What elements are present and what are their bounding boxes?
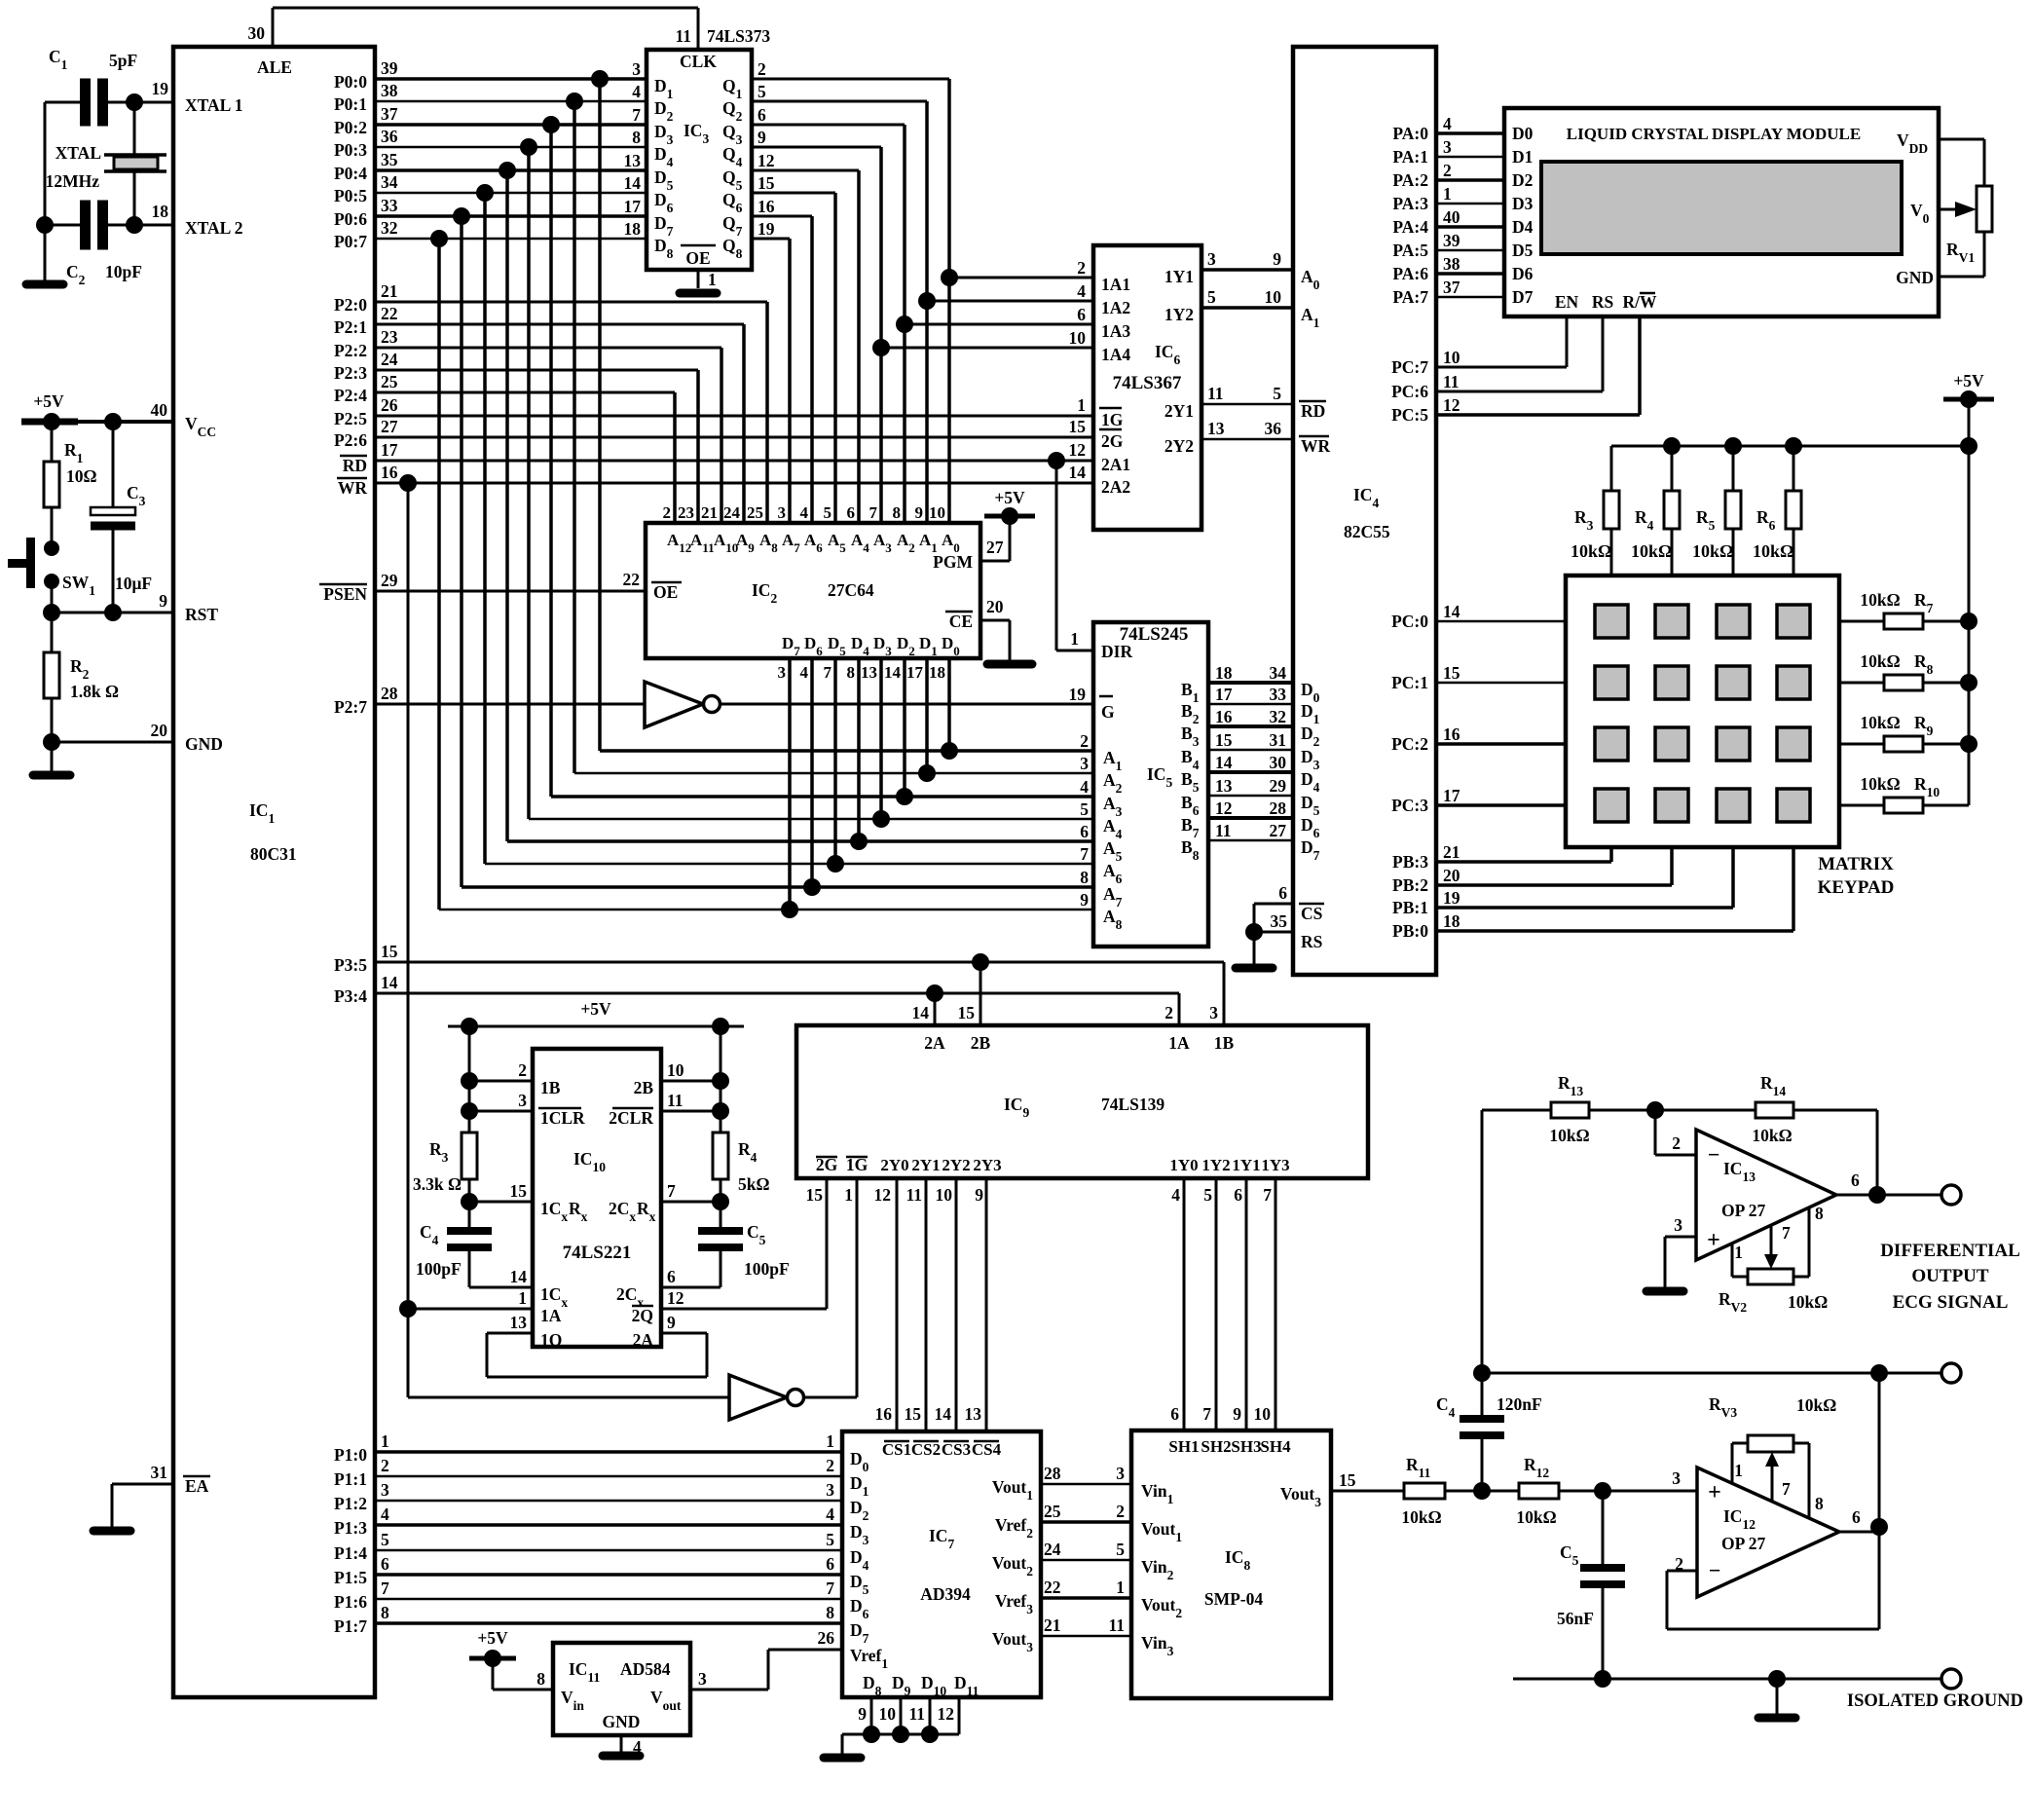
potentiometer RV3 10k offset <box>1709 1394 1836 1518</box>
monostable IC10 74LS221 <box>533 1049 661 1347</box>
svg-text:4: 4 <box>381 1504 389 1524</box>
svg-text:26: 26 <box>381 395 398 415</box>
svg-text:30: 30 <box>248 23 266 43</box>
svg-text:10kΩ: 10kΩ <box>1549 1126 1589 1145</box>
IC3 pin labels <box>624 59 775 261</box>
voltage reference IC11 AD584 <box>536 1643 707 1757</box>
IC4 port B pin labels <box>1392 842 1460 941</box>
IC1 port P2 / control pin labels <box>319 281 398 1006</box>
wire P1:5 to IC7 D5 <box>375 1554 842 1575</box>
wire P2:0 address A8 to IC2 <box>375 302 767 523</box>
svg-text:24: 24 <box>1044 1540 1061 1559</box>
svg-text:35: 35 <box>381 150 398 169</box>
svg-text:5: 5 <box>824 503 832 522</box>
svg-text:4: 4 <box>1080 777 1089 797</box>
svg-text:10kΩ: 10kΩ <box>1796 1395 1836 1415</box>
+5V supply to IC1 VCC <box>21 391 173 430</box>
buffer IC6 74LS367 <box>1093 245 1201 530</box>
svg-text:15: 15 <box>1339 1470 1356 1490</box>
junction dots IC2 data pins on bus <box>781 742 958 918</box>
IC4 PC0-PC3 pin labels <box>1391 602 1460 815</box>
wire IC9 2Y0 to IC7 CS1 <box>875 1178 898 1431</box>
svg-text:PC:7: PC:7 <box>1391 357 1428 377</box>
svg-text:7: 7 <box>1080 844 1089 864</box>
svg-text:1: 1 <box>1070 629 1079 649</box>
peripheral interface IC4 82C55 <box>1293 47 1436 975</box>
svg-text:2A: 2A <box>924 1033 945 1053</box>
wire IC4 PC:0 to keypad row 1 <box>1436 620 1566 623</box>
svg-text:13: 13 <box>861 663 877 682</box>
svg-text:3: 3 <box>1674 1215 1682 1235</box>
svg-text:4: 4 <box>800 663 809 682</box>
svg-text:SH3: SH3 <box>1231 1437 1261 1456</box>
svg-text:OP 27: OP 27 <box>1721 1201 1765 1220</box>
svg-text:14: 14 <box>1443 602 1460 621</box>
svg-text:P0:4: P0:4 <box>334 164 367 183</box>
svg-text:P2:1: P2:1 <box>334 317 367 337</box>
capacitor C5 56nF filter <box>1557 1491 1625 1679</box>
svg-text:XTAL 2: XTAL 2 <box>185 218 242 238</box>
svg-text:10: 10 <box>879 1704 897 1724</box>
resistor R3 3.3k <box>413 1133 477 1194</box>
svg-text:PC:0: PC:0 <box>1391 612 1428 631</box>
svg-text:7: 7 <box>869 503 878 522</box>
wire IC5 B4 to IC4 D3 <box>1208 749 1293 752</box>
svg-text:KEYPAD: KEYPAD <box>1818 877 1895 898</box>
svg-text:3: 3 <box>381 1480 389 1500</box>
wire IC9 1Y to IC8 SH1 <box>1170 1178 1184 1430</box>
transceiver IC5 74LS245 <box>1093 622 1208 947</box>
IC2 data pin labels <box>778 634 960 682</box>
svg-text:12: 12 <box>874 1185 892 1205</box>
svg-text:100pF: 100pF <box>416 1259 462 1279</box>
wire P1:3 to IC7 D3 <box>375 1504 842 1525</box>
ground at IC1 GND pin 20 <box>33 733 173 775</box>
svg-text:−: − <box>1708 1142 1720 1167</box>
svg-text:GND: GND <box>1896 268 1934 287</box>
wire keypad column 2 to IC4 PB:2 <box>1436 847 1672 885</box>
wire IC4 PA:5 to LCD D5 <box>1436 249 1504 252</box>
wire P2:3 address A11 to IC2 <box>375 370 698 523</box>
isolated ground rail <box>1513 1669 2023 1718</box>
wire IC7 to IC8 ladder 3 <box>1041 1540 1131 1560</box>
svg-text:10kΩ: 10kΩ <box>1860 590 1900 610</box>
svg-text:27C64: 27C64 <box>828 580 874 600</box>
svg-text:2: 2 <box>1672 1133 1681 1153</box>
resistor R11 10k <box>1331 1455 1482 1527</box>
svg-text:6: 6 <box>1170 1404 1179 1424</box>
svg-text:1G: 1G <box>1101 410 1124 429</box>
svg-text:RST: RST <box>185 605 218 624</box>
svg-text:SMP-04: SMP-04 <box>1204 1589 1264 1609</box>
svg-text:P0:3: P0:3 <box>334 140 367 160</box>
svg-text:5kΩ: 5kΩ <box>738 1174 770 1194</box>
svg-text:SH2: SH2 <box>1201 1437 1231 1456</box>
svg-text:6: 6 <box>1852 1507 1861 1527</box>
IC7 chip select labels <box>882 1440 1002 1459</box>
svg-text:10μF: 10μF <box>115 574 152 593</box>
svg-text:15: 15 <box>758 173 775 193</box>
svg-text:PA:4: PA:4 <box>1392 217 1428 237</box>
svg-text:32: 32 <box>381 218 398 238</box>
svg-text:7: 7 <box>1202 1404 1211 1424</box>
svg-text:15: 15 <box>510 1181 528 1201</box>
svg-text:2: 2 <box>381 1456 389 1475</box>
svg-text:MATRIX: MATRIX <box>1818 854 1894 874</box>
svg-text:11: 11 <box>1215 821 1232 840</box>
svg-text:9: 9 <box>667 1313 676 1332</box>
svg-text:9: 9 <box>1233 1404 1241 1424</box>
wire P2:2 address A10 to IC2 <box>375 348 721 523</box>
svg-text:D5: D5 <box>1512 241 1534 260</box>
svg-text:2Y0: 2Y0 <box>880 1156 908 1174</box>
svg-text:P0:5: P0:5 <box>334 186 367 205</box>
wire WR to IC6 2A2 and one-shot trigger <box>375 474 1093 1397</box>
svg-text:17: 17 <box>1215 685 1233 704</box>
resistor R14 10k feedback <box>1655 1073 1877 1195</box>
svg-text:9: 9 <box>858 1704 867 1724</box>
wire IC4 PA:6 to LCD D6 <box>1436 272 1504 276</box>
svg-text:16: 16 <box>381 463 398 482</box>
svg-text:9: 9 <box>915 503 924 522</box>
svg-text:1: 1 <box>381 1431 389 1451</box>
wire PC:6 to LCD RS <box>1436 316 1603 391</box>
svg-text:6: 6 <box>1278 883 1287 903</box>
sample-hold IC8 SMP-04 <box>1131 1430 1331 1698</box>
svg-text:1A2: 1A2 <box>1101 298 1130 317</box>
svg-text:21: 21 <box>701 503 718 522</box>
svg-text:17: 17 <box>1443 786 1460 805</box>
svg-text:D2: D2 <box>1512 170 1533 190</box>
wire P0:4 data bus to IC3 D5 and IC5 A5 <box>375 162 1093 841</box>
wire IC3 Q3 address A2 to IC2 <box>752 125 905 523</box>
svg-text:15: 15 <box>1069 417 1087 436</box>
inverter from WR to IC9 1G <box>408 1178 857 1420</box>
svg-text:P2:3: P2:3 <box>334 363 367 383</box>
svg-text:9: 9 <box>1080 890 1089 910</box>
svg-text:20: 20 <box>986 597 1004 616</box>
svg-text:6: 6 <box>758 105 766 125</box>
svg-text:14: 14 <box>912 1003 930 1022</box>
svg-text:P2:6: P2:6 <box>334 430 367 450</box>
svg-text:10kΩ: 10kΩ <box>1860 774 1900 794</box>
wire IC4 PA:4 to LCD D4 <box>1436 225 1504 229</box>
svg-text:13: 13 <box>1207 419 1225 438</box>
wire keypad column 1 to IC4 PB:3 <box>1436 847 1611 862</box>
svg-text:2: 2 <box>826 1456 834 1475</box>
wire IC2 D1 to data bus <box>925 658 929 773</box>
IC7 pin labels <box>818 1449 1034 1671</box>
svg-text:CS4: CS4 <box>972 1440 1002 1459</box>
svg-text:1A1: 1A1 <box>1101 275 1130 294</box>
svg-text:1: 1 <box>708 270 717 289</box>
svg-text:RD: RD <box>1301 401 1325 421</box>
wire IC3 Q6 address A5 to IC2 <box>752 193 835 523</box>
svg-text:WR: WR <box>338 478 368 498</box>
svg-text:2A2: 2A2 <box>1101 477 1130 497</box>
IC4 left pin labels <box>1299 267 1331 456</box>
svg-text:10Ω: 10Ω <box>66 466 97 486</box>
svg-text:4: 4 <box>1171 1185 1180 1205</box>
svg-text:36: 36 <box>381 127 398 146</box>
svg-text:6: 6 <box>667 1267 676 1286</box>
wire IC9 1Y to IC8 SH2 <box>1202 1178 1216 1430</box>
wire P1:6 to IC7 D6 <box>375 1579 842 1599</box>
wire IC7 to IC8 ladder 4 <box>1041 1578 1131 1598</box>
svg-text:P2:7: P2:7 <box>334 697 367 717</box>
svg-text:7: 7 <box>381 1579 389 1598</box>
wire IC9 2Y3 to IC7 CS4 <box>965 1178 987 1431</box>
wire P1:0 to IC7 D0 <box>375 1431 842 1452</box>
IC2 PGM pin 27 to +5V <box>980 488 1035 561</box>
svg-text:2: 2 <box>1077 258 1086 278</box>
wire R4 to C5 and 2CxRx <box>661 1179 729 1231</box>
svg-text:5: 5 <box>1203 1185 1212 1205</box>
svg-text:CS: CS <box>1301 904 1322 923</box>
svg-text:23: 23 <box>678 503 694 522</box>
svg-text:P1:6: P1:6 <box>334 1592 367 1612</box>
svg-text:6: 6 <box>826 1554 834 1574</box>
svg-text:1: 1 <box>1077 395 1086 415</box>
svg-text:P2:2: P2:2 <box>334 341 367 360</box>
svg-text:29: 29 <box>1270 776 1287 796</box>
svg-text:2Q: 2Q <box>632 1306 653 1325</box>
wire IC2 D5 to data bus <box>833 658 837 864</box>
IC2 OE pin number <box>623 570 641 589</box>
svg-text:3: 3 <box>778 663 787 682</box>
svg-text:2A: 2A <box>633 1330 654 1350</box>
svg-text:2: 2 <box>518 1060 527 1080</box>
capacitor C5 100pF timing <box>698 1222 790 1279</box>
wire C4 to IC10 1Cx <box>469 1251 533 1287</box>
resistor R6 10k pull-up <box>1753 491 1801 576</box>
svg-text:10kΩ: 10kΩ <box>1753 541 1793 561</box>
svg-text:2: 2 <box>1443 161 1452 180</box>
svg-text:1.8k Ω: 1.8k Ω <box>70 682 119 701</box>
svg-text:14: 14 <box>510 1267 528 1286</box>
wire IC5 B7 to IC4 D6 <box>1208 816 1293 820</box>
svg-text:P1:0: P1:0 <box>334 1445 367 1465</box>
wire IC4 PC:2 to keypad row 3 <box>1436 742 1566 746</box>
svg-text:ECG SIGNAL: ECG SIGNAL <box>1893 1292 2009 1313</box>
svg-text:16: 16 <box>875 1404 893 1424</box>
svg-text:15: 15 <box>958 1003 976 1022</box>
svg-text:GND: GND <box>603 1712 641 1731</box>
wire LCD GND to RV1 bottom <box>1939 232 1984 277</box>
op-amp IC13 OP27 <box>1696 1130 1836 1260</box>
svg-text:9: 9 <box>975 1185 983 1205</box>
svg-text:22: 22 <box>381 304 398 323</box>
IC8 sample-hold input labels <box>1168 1437 1291 1456</box>
svg-text:20: 20 <box>1443 866 1460 885</box>
wire IC5 B8 to IC4 D7 <box>1208 839 1293 842</box>
svg-text:74LS139: 74LS139 <box>1101 1095 1164 1114</box>
wire P1:4 to IC7 D4 <box>375 1530 842 1550</box>
svg-text:+: + <box>1707 1228 1720 1253</box>
svg-text:CLK: CLK <box>680 52 717 71</box>
IC1 left pin labels <box>151 79 243 1496</box>
svg-text:18: 18 <box>929 663 945 682</box>
svg-text:CS1: CS1 <box>882 1440 911 1459</box>
svg-text:10kΩ: 10kΩ <box>1860 651 1900 671</box>
wire IC2 D4 to data bus <box>857 658 861 841</box>
svg-text:1: 1 <box>1116 1578 1125 1597</box>
wire IC4 PA:2 to LCD D2 <box>1436 178 1504 182</box>
IC4 CS and RS pins to ground <box>1236 883 1324 968</box>
svg-text:PC:2: PC:2 <box>1391 734 1428 754</box>
IC2 address pin labels <box>663 503 960 555</box>
svg-text:18: 18 <box>1215 663 1233 683</box>
svg-text:19: 19 <box>758 219 775 239</box>
svg-text:30: 30 <box>1270 753 1287 772</box>
svg-text:2: 2 <box>758 59 766 79</box>
svg-text:7: 7 <box>824 663 832 682</box>
svg-text:22: 22 <box>623 570 641 589</box>
svg-text:−: − <box>1709 1558 1721 1582</box>
IC1 port P0 pin labels <box>334 58 398 251</box>
svg-text:35: 35 <box>1271 911 1288 931</box>
wire IC3 Q2 address A1 to IC2 <box>752 101 927 523</box>
svg-text:10pF: 10pF <box>105 262 142 281</box>
wire +5V rail to column pull-ups <box>1611 437 1969 491</box>
svg-text:12: 12 <box>1215 799 1233 818</box>
resistor R1 10ohm <box>44 422 97 539</box>
svg-text:1Y1: 1Y1 <box>1164 267 1194 286</box>
wire IC3 Q8 address A7 to IC2 <box>752 239 790 523</box>
svg-text:18: 18 <box>624 219 642 239</box>
wire trigger to IC10 1A <box>408 1308 533 1311</box>
+5V to IC11 Vin <box>469 1628 553 1690</box>
svg-text:P0:6: P0:6 <box>334 209 367 229</box>
svg-text:PB:1: PB:1 <box>1392 898 1428 917</box>
svg-text:74LS221: 74LS221 <box>563 1243 632 1263</box>
wire P0:0 data bus to IC3 D1 and IC5 A1 <box>375 70 1093 751</box>
EPROM IC2 27C64 <box>646 523 980 658</box>
svg-text:23: 23 <box>381 327 398 347</box>
svg-text:AD584: AD584 <box>620 1659 671 1679</box>
svg-text:1: 1 <box>844 1185 853 1205</box>
svg-text:PA:0: PA:0 <box>1392 124 1428 143</box>
wire R3 to C4 and 1CxRx <box>461 1179 533 1231</box>
wire IC9 2Y1 to IC7 CS2 <box>905 1178 927 1431</box>
svg-text:2B: 2B <box>634 1078 654 1097</box>
svg-text:24: 24 <box>723 503 741 522</box>
capacitor C4 120nF filter <box>1436 1373 1542 1491</box>
svg-text:13: 13 <box>1215 776 1233 796</box>
svg-text:P1:5: P1:5 <box>334 1568 367 1587</box>
svg-text:15: 15 <box>905 1404 922 1424</box>
wire IC3 Q5 address A4 to IC2 <box>752 170 859 523</box>
svg-text:21: 21 <box>1443 842 1460 862</box>
capacitor C1 5pF <box>45 47 173 127</box>
wire keypad column 3 to IC4 PB:1 <box>1436 847 1733 908</box>
svg-text:2Y1: 2Y1 <box>1164 401 1194 421</box>
wire P2:6 to IC6 2G <box>375 436 1093 439</box>
latch IC3 74LS373 <box>647 26 770 270</box>
svg-text:14: 14 <box>1215 753 1233 772</box>
wire P2:5 to IC6 1G <box>375 415 1093 418</box>
svg-text:PC:6: PC:6 <box>1391 382 1428 401</box>
wire P1:1 to IC7 D1 <box>375 1456 842 1476</box>
svg-text:6: 6 <box>1077 305 1086 324</box>
svg-text:10kΩ: 10kΩ <box>1788 1292 1828 1312</box>
wire IC6 1Y1 to IC4 A0 <box>1201 249 1293 270</box>
resistor R7 10k row pull-up <box>1839 590 1969 629</box>
svg-text:15: 15 <box>1215 730 1233 750</box>
svg-text:1Y2: 1Y2 <box>1164 305 1194 324</box>
decoder IC9 74LS139 <box>796 1025 1368 1178</box>
wire IC2 D7 to data bus <box>788 658 792 910</box>
svg-text:33: 33 <box>381 196 398 215</box>
svg-text:14: 14 <box>884 663 902 682</box>
wire IC4 PA:3 to LCD D3 <box>1436 203 1504 205</box>
+5V rail for keypad resistors <box>1943 371 1994 805</box>
svg-text:38: 38 <box>1443 254 1460 274</box>
svg-text:3: 3 <box>826 1480 834 1500</box>
svg-text:24: 24 <box>381 350 398 369</box>
svg-text:1: 1 <box>1443 184 1452 204</box>
svg-text:7: 7 <box>1782 1223 1791 1243</box>
svg-text:2Y2: 2Y2 <box>1164 436 1194 456</box>
svg-text:40: 40 <box>151 400 168 420</box>
wire IC11 Vout to IC7 Vref1 <box>690 1650 842 1690</box>
IC4 PC7-PC5 pin labels <box>1391 348 1460 425</box>
svg-text:D4: D4 <box>1512 217 1534 237</box>
svg-text:10: 10 <box>1254 1404 1272 1424</box>
svg-text:8: 8 <box>632 128 641 147</box>
svg-text:2Y1: 2Y1 <box>911 1156 940 1174</box>
svg-text:3: 3 <box>1116 1464 1125 1483</box>
svg-text:37: 37 <box>381 104 398 124</box>
svg-text:8: 8 <box>1815 1204 1824 1223</box>
svg-text:5: 5 <box>1207 287 1216 307</box>
svg-text:2CLR: 2CLR <box>609 1108 653 1128</box>
svg-text:10: 10 <box>1069 328 1087 348</box>
svg-text:14: 14 <box>935 1404 952 1424</box>
svg-text:11: 11 <box>906 1185 922 1205</box>
svg-text:11: 11 <box>1108 1616 1125 1635</box>
svg-text:14: 14 <box>624 173 642 193</box>
svg-text:2G: 2G <box>1101 431 1124 451</box>
svg-text:+5V: +5V <box>1953 371 1984 390</box>
wire P1:7 to IC7 D7 <box>375 1603 842 1623</box>
svg-text:+5V: +5V <box>477 1628 508 1648</box>
svg-text:16: 16 <box>758 197 775 216</box>
LCD pin labels <box>1512 124 1934 312</box>
svg-text:ALE: ALE <box>257 57 292 77</box>
svg-text:2: 2 <box>1080 731 1089 751</box>
svg-text:PGM: PGM <box>933 552 973 572</box>
svg-text:13: 13 <box>510 1313 528 1332</box>
svg-text:5pF: 5pF <box>109 51 137 70</box>
svg-text:CS3: CS3 <box>942 1440 971 1459</box>
svg-text:10kΩ: 10kΩ <box>1860 713 1900 732</box>
svg-text:+5V: +5V <box>994 488 1025 507</box>
wire P0:1 data bus to IC3 D2 and IC5 A2 <box>375 93 1093 773</box>
svg-text:DIR: DIR <box>1101 642 1132 661</box>
svg-text:RS: RS <box>1301 932 1322 951</box>
ground at IC11 GND pin 4 <box>603 1735 640 1756</box>
svg-text:4: 4 <box>1077 281 1086 301</box>
wire P3:4 to IC9 2A and 1A <box>375 984 1179 1025</box>
svg-text:31: 31 <box>151 1463 168 1482</box>
svg-text:PA:3: PA:3 <box>1392 194 1428 213</box>
svg-text:10kΩ: 10kΩ <box>1752 1126 1792 1145</box>
svg-text:G: G <box>1101 702 1115 722</box>
wires A0-A3 to IC6 1A1-1A4 <box>872 269 1093 356</box>
svg-text:11: 11 <box>667 1091 684 1110</box>
wire RD to IC6 2A1 and IC5 DIR <box>375 452 1093 650</box>
